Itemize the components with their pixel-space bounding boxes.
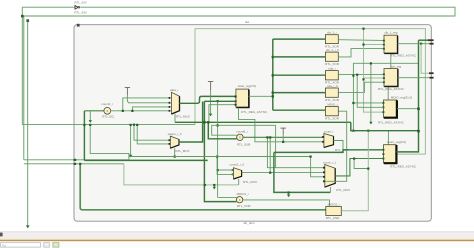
- count_i_1 output s-bend to count_reg: [335, 159, 383, 176]
- circle MDIO1_i: [236, 197, 242, 203]
- svg-text:clk_1_i_0: clk_1_i_0: [326, 48, 339, 52]
- state_reg output: [249, 95, 273, 97]
- wire h 163.8: [24, 163, 124, 165]
- inverter U_inv: [75, 6, 80, 10]
- svg-text:sda_i_0: sda_i_0: [327, 84, 338, 88]
- svg-text:RTL_REG_ASYNC: RTL_REG_ASYNC: [241, 110, 268, 114]
- state1 select drop: [174, 148, 176, 156]
- svg-text:RTL_INV: RTL_INV: [74, 0, 86, 4]
- svg-text:MDIO2_i: MDIO2_i: [328, 202, 340, 206]
- svg-text:Tcl: Tcl: [2, 243, 6, 247]
- module pin square top-left: [77, 24, 80, 27]
- combo box: [1, 243, 41, 247]
- svg-text:count6_i: count6_i: [236, 130, 248, 134]
- v421 port link: [421, 44, 429, 73]
- count1_i_0 inputs: [218, 169, 234, 171]
- count6 output to count_i mux: [243, 136, 324, 138]
- svg-text:sdr_reg: sdr_reg: [391, 65, 402, 69]
- pale H2 with corner down to count6 upper pin: [212, 125, 276, 135]
- dangler on rectC rail: [213, 185, 215, 187]
- xor sda_i: [325, 67, 340, 85]
- clock net along top: [195, 29, 425, 155]
- wire reset entering, down left rail, along bottom: [80, 164, 326, 210]
- select drop to rectC rail: [238, 179, 240, 185]
- v217.6 end to MDIO1 upper pin: [218, 196, 237, 198]
- stub arrow under circle input: [89, 111, 91, 121]
- wire v217.6 from reg pin2 row down to MDIO1: [217, 101, 219, 197]
- svg-text:MDIO_reg[31:0]: MDIO_reg[31:0]: [391, 96, 413, 100]
- svg-text:RTL_REG_ASYNC: RTL_REG_ASYNC: [378, 121, 405, 125]
- mux state1_i_0: [170, 136, 179, 148]
- v357.2 feed MDIO pin2: [357, 75, 383, 108]
- thick select loop: [274, 152, 331, 192]
- count_i output drop: [334, 141, 344, 153]
- MDIO_reg output: [397, 108, 419, 110]
- thick v 208.3 count6 lower pin feed: [208, 122, 237, 139]
- wire pin down to arrow: [27, 22, 29, 226]
- const gnd 1: [125, 88, 130, 96]
- mux count_i_1: [325, 165, 335, 188]
- svg-text:count_reg[3:0]: count_reg[3:0]: [387, 140, 406, 144]
- tan separator band: [0, 239, 474, 240]
- clock branch v363.5: [364, 29, 384, 113]
- dangler near MDIO_reg: [370, 63, 372, 122]
- const gnd 2 long stem: [208, 82, 213, 91]
- wire thick v 84.4 circle feed: [83, 111, 85, 161]
- junction at 22.3,16: [21, 15, 24, 18]
- wire inverter output to right edge: [22, 7, 455, 16]
- chain wire clk_1_reg to sdr_reg: [390, 53, 392, 68]
- bottom row background: [0, 241, 474, 248]
- svg-text:wb_dum: wb_dum: [243, 221, 255, 225]
- svg-text:data_i: data_i: [170, 88, 179, 92]
- svg-text:state1_i_0: state1_i_0: [168, 132, 182, 136]
- dangler at 288.6: [288, 192, 290, 194]
- dangling arrow: [26, 225, 30, 228]
- svg-text:x: x: [106, 109, 108, 113]
- wire vertical left down: [21, 7, 23, 124]
- wire rect-C left and bottom: [124, 164, 239, 185]
- small button 1: [44, 243, 50, 247]
- xor clk_1_i: [325, 31, 340, 49]
- svg-text:RTL_INV: RTL_INV: [74, 10, 86, 14]
- wire v137 to state1 mux pin2: [137, 125, 170, 144]
- wire h 159.8: [24, 159, 129, 161]
- v275.6 long: [275, 125, 277, 167]
- circle output straight to mux pin4: [111, 110, 170, 112]
- fan branch to mux pin1: [123, 98, 170, 111]
- data_i pin marks: [169, 97, 171, 99]
- xor clk_1_i_0: [325, 48, 340, 66]
- svg-text:state_reg[3:0]: state_reg[3:0]: [238, 84, 257, 88]
- svg-text:RTL_MUX: RTL_MUX: [176, 115, 190, 119]
- state_reg out2 route to count_i pin2: [239, 108, 324, 142]
- module dut box: [74, 20, 431, 225]
- xor feed wires thick: [273, 38, 326, 40]
- svg-text:RTL_XOR: RTL_XOR: [325, 117, 340, 121]
- svg-text:RTL_EQ: RTL_EQ: [102, 115, 114, 119]
- input pin square: [26, 19, 29, 22]
- svg-text:MDIO_i: MDIO_i: [327, 103, 338, 107]
- pale v208.9 to reg pin3: [209, 105, 236, 123]
- wire long pale horizontal y=124.6 to clock riser: [22, 124, 195, 126]
- mux count_i: [324, 134, 334, 148]
- svg-text:count2_i: count2_i: [101, 102, 113, 106]
- svg-text:RTL_XOR: RTL_XOR: [325, 98, 340, 102]
- xor outputs: [338, 39, 384, 42]
- MDIO2_i box: [326, 202, 342, 220]
- register clk_1_reg: [383, 31, 417, 58]
- drop from thick H to count_reg top: [387, 131, 389, 145]
- gnd stem elbow to mux pin2: [127, 101, 169, 103]
- register MDIO_reg: [378, 96, 412, 125]
- wire v134 to state1 mux pin1: [134, 125, 170, 141]
- small button 2: [53, 243, 59, 247]
- xor sda_i_0: [325, 84, 340, 102]
- svg-text:sda_i: sda_i: [328, 67, 336, 71]
- thick bus v272.8 from state_reg out: [272, 39, 274, 110]
- MDIO2 output riser to MDIO_reg: [341, 131, 368, 211]
- svg-text:RTL_REG_ASYNC: RTL_REG_ASYNC: [378, 87, 405, 91]
- svg-text:count_i_1: count_i_1: [323, 161, 336, 165]
- wire h153.4 jog: [90, 125, 129, 160]
- mux data_i: [172, 92, 180, 114]
- const gnd 3: [280, 128, 286, 134]
- svg-text:MDIO1_i: MDIO1_i: [237, 192, 249, 196]
- state1 mux output s-bend up: [179, 102, 203, 143]
- circle count2_i: [104, 107, 111, 114]
- svg-text:RTL_MUX: RTL_MUX: [336, 188, 350, 192]
- svg-text:RTL_SUB: RTL_SUB: [237, 143, 250, 147]
- status icon left: [0, 233, 3, 237]
- bottom ui bar: [0, 232, 474, 248]
- wire long thick horizontal y=121.8: [175, 121, 351, 123]
- data_i select drop: [174, 114, 176, 123]
- sdr_reg output + stub: [398, 77, 430, 79]
- right column: [195, 28, 434, 169]
- wire top horizontal into inverter: [22, 6, 74, 8]
- register state_reg: [235, 84, 268, 114]
- v310.6: [311, 157, 325, 177]
- mux count1_i_0: [234, 168, 242, 179]
- svg-text:dut: dut: [245, 20, 249, 24]
- chain wire sdr_reg to MDIO_reg: [387, 87, 389, 101]
- clock riser pale: [194, 29, 196, 125]
- register count_reg: [382, 140, 417, 168]
- dangler v130.6: [130, 125, 132, 155]
- clk_1_reg output + stub: [398, 43, 430, 45]
- thick horizontal 160.4: [84, 159, 207, 161]
- count1_i_0 output to count_i_1 pin2, riser branch: [242, 172, 325, 174]
- svg-text:RTL_XOR: RTL_XOR: [325, 62, 340, 66]
- svg-text:count_i: count_i: [324, 130, 334, 134]
- thick v 204.4 reg pin3 and MDIO1 feed: [204, 101, 236, 201]
- MDIO1 output to MDIO2 top pin: [243, 200, 330, 207]
- junction on rectC rail at thick v: [204, 184, 206, 186]
- svg-text:clk_1_i: clk_1_i: [327, 31, 337, 35]
- xor MDIO_i: [325, 103, 340, 121]
- count_i_1 pin4 from MDIO_i xor: [325, 111, 347, 181]
- svg-text:RTL_AND: RTL_AND: [326, 216, 340, 220]
- svg-text:RTL_MUX: RTL_MUX: [176, 149, 190, 153]
- svg-text:RTL_MUX: RTL_MUX: [243, 180, 257, 184]
- left side nets: [22, 29, 351, 210]
- thick feedback from count_reg area: [351, 122, 419, 130]
- data_i mux output s-bend to reg pin1: [179, 96, 236, 103]
- wire v353.4: [353, 63, 419, 130]
- port stub 40.2: [419, 39, 429, 41]
- svg-text:RTL_XOR: RTL_XOR: [237, 204, 252, 208]
- svg-text:x: x: [239, 136, 241, 140]
- fan branch to mux pin3: [132, 107, 170, 111]
- svg-text:RTL_REG_ASYNC: RTL_REG_ASYNC: [390, 164, 417, 168]
- module input pin dots on left edge: [74, 159, 77, 161]
- branch from riser: [354, 159, 368, 169]
- wire v 23.8 second left rail: [23, 16, 25, 160]
- long thin h156.5: [129, 156, 311, 158]
- svg-text:RTL_REG_ASYNC: RTL_REG_ASYNC: [390, 54, 417, 58]
- center components: [129, 101, 384, 220]
- svg-text:clk_1_reg: clk_1_reg: [384, 31, 397, 35]
- v267.4: [267, 137, 324, 167]
- svg-text:x: x: [239, 198, 241, 202]
- svg-text:count1_i_0: count1_i_0: [230, 162, 245, 166]
- circle count6_i: [237, 134, 243, 140]
- register sdr_reg: [378, 65, 405, 91]
